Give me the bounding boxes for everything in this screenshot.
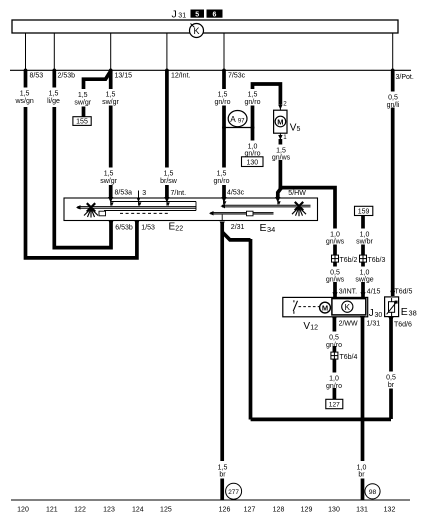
- svg-text:gn/ro: gn/ro: [214, 178, 230, 185]
- svg-text:1,5: 1,5: [218, 464, 228, 471]
- svg-text:38: 38: [409, 309, 417, 318]
- svg-text:1,5: 1,5: [20, 91, 30, 98]
- svg-text:1,5: 1,5: [49, 91, 59, 98]
- svg-text:M: M: [277, 118, 283, 127]
- svg-text:1/31: 1/31: [367, 320, 381, 327]
- svg-text:2: 2: [283, 100, 287, 107]
- svg-text:2/31: 2/31: [231, 224, 245, 231]
- svg-text:12/Int.: 12/Int.: [171, 73, 191, 80]
- svg-text:8/53a: 8/53a: [115, 190, 133, 197]
- svg-text:sw/br: sw/br: [356, 239, 373, 246]
- svg-text:277: 277: [228, 489, 239, 496]
- svg-text:31: 31: [178, 12, 186, 19]
- svg-text:br: br: [358, 472, 365, 479]
- svg-text:155: 155: [76, 119, 88, 126]
- svg-text:gn/ro: gn/ro: [326, 383, 342, 390]
- svg-text:gn/ro: gn/ro: [245, 151, 261, 158]
- svg-text:gn/ws: gn/ws: [326, 239, 345, 246]
- svg-text:gn/ws: gn/ws: [272, 155, 291, 162]
- svg-text:122: 122: [74, 507, 86, 514]
- svg-text:12: 12: [310, 325, 318, 332]
- svg-text:ws/gn: ws/gn: [14, 98, 33, 105]
- svg-text:132: 132: [384, 507, 396, 514]
- svg-text:1,0: 1,0: [360, 269, 370, 276]
- svg-text:J: J: [369, 308, 374, 319]
- svg-text:sw/ge: sw/ge: [355, 277, 373, 284]
- svg-text:1,0: 1,0: [360, 231, 370, 238]
- svg-text:0,5: 0,5: [388, 95, 398, 102]
- svg-text:br: br: [388, 382, 395, 389]
- svg-text:123: 123: [103, 507, 115, 514]
- svg-text:T6b/2: T6b/2: [340, 257, 358, 264]
- svg-text:sw/gr: sw/gr: [100, 178, 117, 185]
- svg-text:130: 130: [328, 507, 340, 514]
- svg-text:3/INT.: 3/INT.: [339, 289, 357, 296]
- svg-text:T6d/6: T6d/6: [394, 322, 412, 329]
- svg-text:A: A: [230, 115, 236, 124]
- svg-text:1,0: 1,0: [248, 143, 258, 150]
- svg-text:30: 30: [375, 312, 383, 319]
- svg-text:121: 121: [46, 507, 58, 514]
- svg-text:4/15: 4/15: [367, 289, 381, 296]
- svg-text:129: 129: [301, 507, 313, 514]
- svg-text:1,5: 1,5: [248, 92, 258, 99]
- svg-text:126: 126: [219, 507, 231, 514]
- svg-text:1,5: 1,5: [164, 171, 174, 178]
- svg-text:J: J: [172, 8, 177, 20]
- svg-text:li/ge: li/ge: [47, 98, 60, 105]
- svg-text:1,0: 1,0: [330, 231, 340, 238]
- svg-text:5/HW: 5/HW: [288, 190, 306, 197]
- svg-text:13/15: 13/15: [115, 72, 133, 79]
- svg-text:127: 127: [329, 402, 340, 409]
- svg-text:2/WW: 2/WW: [339, 321, 358, 328]
- svg-text:T6b/4: T6b/4: [340, 354, 358, 361]
- svg-text:159: 159: [358, 209, 370, 216]
- svg-text:7/Int.: 7/Int.: [171, 190, 187, 197]
- svg-text:1/53: 1/53: [141, 224, 155, 231]
- svg-text:125: 125: [160, 507, 172, 514]
- svg-text:E: E: [401, 306, 408, 318]
- svg-text:130: 130: [246, 159, 258, 166]
- svg-text:E: E: [260, 222, 267, 234]
- svg-text:0,5: 0,5: [386, 375, 396, 382]
- svg-text:124: 124: [132, 507, 144, 514]
- svg-text:K: K: [193, 26, 199, 36]
- svg-text:120: 120: [17, 507, 29, 514]
- svg-text:6: 6: [213, 11, 217, 18]
- svg-text:sw/gr: sw/gr: [102, 99, 119, 106]
- svg-text:br: br: [219, 472, 226, 479]
- svg-text:sw/gr: sw/gr: [74, 99, 91, 106]
- svg-text:1,5: 1,5: [276, 147, 286, 154]
- svg-text:22: 22: [175, 225, 183, 232]
- svg-text:131: 131: [356, 507, 368, 514]
- svg-text:1,5: 1,5: [106, 92, 116, 99]
- svg-text:gn/ws: gn/ws: [326, 277, 345, 284]
- svg-text:127: 127: [244, 507, 256, 514]
- svg-text:gn/ro: gn/ro: [215, 99, 231, 106]
- svg-text:T6d/5: T6d/5: [395, 289, 413, 296]
- svg-text:K: K: [345, 303, 351, 312]
- svg-text:gn/ro: gn/ro: [326, 342, 342, 349]
- svg-text:34: 34: [267, 225, 275, 234]
- svg-text:0,5: 0,5: [330, 269, 340, 276]
- svg-text:T6b/3: T6b/3: [368, 257, 386, 264]
- svg-text:M: M: [322, 304, 328, 313]
- svg-text:5: 5: [297, 126, 301, 133]
- svg-text:1,5: 1,5: [218, 92, 228, 99]
- svg-text:3: 3: [142, 190, 146, 197]
- svg-text:gn/li: gn/li: [387, 102, 400, 109]
- svg-text:5: 5: [195, 11, 199, 18]
- svg-text:128: 128: [273, 507, 285, 514]
- svg-text:1,0: 1,0: [329, 376, 339, 383]
- svg-text:1,5: 1,5: [217, 171, 227, 178]
- svg-text:gn/ro: gn/ro: [245, 99, 261, 106]
- svg-text:7/53c: 7/53c: [228, 73, 246, 80]
- svg-text:2/53b: 2/53b: [58, 72, 76, 79]
- svg-text:1,5: 1,5: [78, 92, 88, 99]
- svg-text:8/53: 8/53: [30, 72, 44, 79]
- svg-text:97: 97: [238, 119, 245, 125]
- svg-text:3/Pot.: 3/Pot.: [396, 74, 414, 81]
- svg-text:br/sw: br/sw: [160, 178, 178, 185]
- svg-text:1,0: 1,0: [357, 464, 367, 471]
- svg-text:6/53b: 6/53b: [115, 224, 133, 231]
- svg-text:98: 98: [369, 489, 377, 496]
- svg-text:1,5: 1,5: [104, 171, 114, 178]
- svg-text:4/53c: 4/53c: [227, 190, 245, 197]
- svg-text:1: 1: [283, 134, 287, 141]
- svg-text:0,5: 0,5: [329, 335, 339, 342]
